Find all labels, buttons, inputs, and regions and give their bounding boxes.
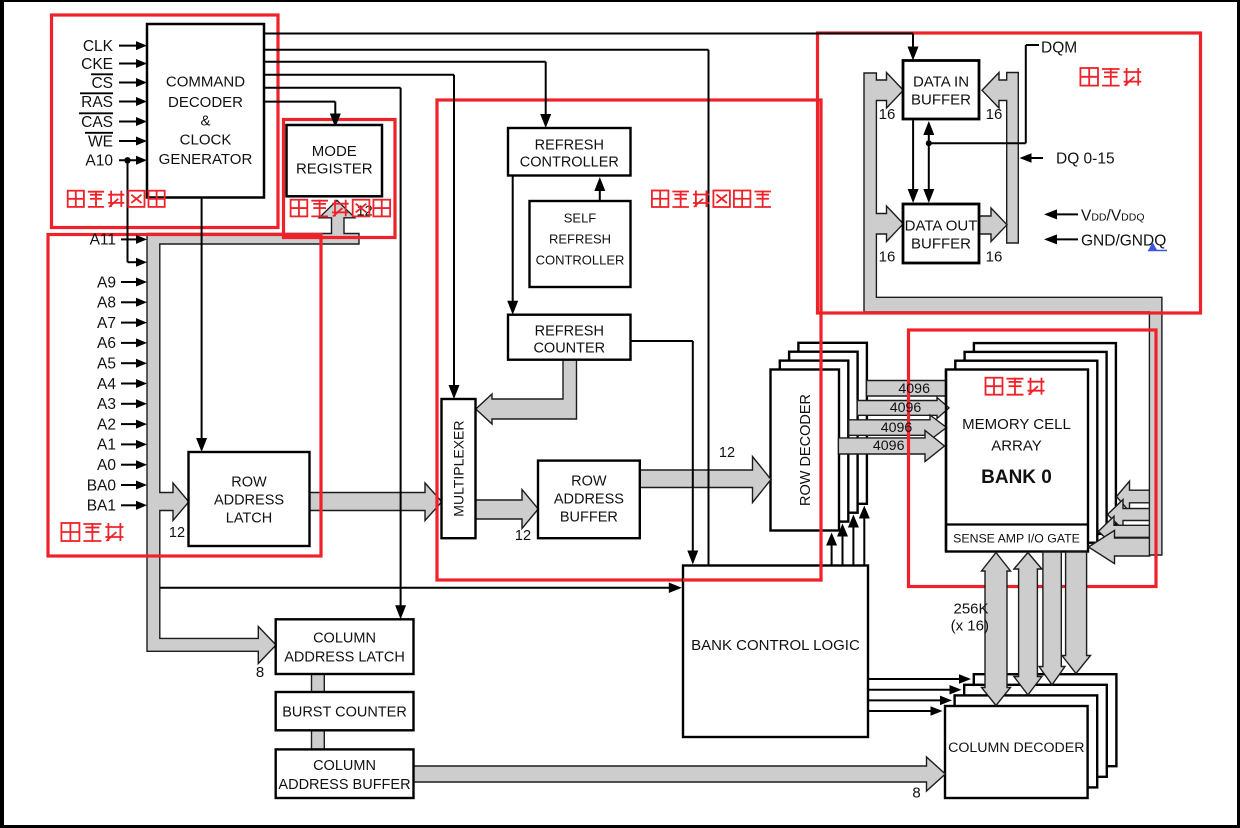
svg-text:8: 8 bbox=[256, 664, 264, 681]
svg-text:8: 8 bbox=[912, 785, 920, 802]
svg-text:REFRESH: REFRESH bbox=[549, 232, 611, 247]
svg-text:A2: A2 bbox=[97, 416, 116, 433]
svg-text:BURST COUNTER: BURST COUNTER bbox=[282, 705, 407, 721]
svg-text:4096: 4096 bbox=[890, 400, 922, 416]
svg-text:ADDRESS BUFFER: ADDRESS BUFFER bbox=[278, 777, 410, 793]
svg-text:SENSE AMP I/O GATE: SENSE AMP I/O GATE bbox=[953, 532, 1080, 546]
svg-text:CONTROLLER: CONTROLLER bbox=[536, 253, 625, 268]
svg-text:MEMORY CELL: MEMORY CELL bbox=[962, 416, 1071, 433]
svg-text:A7: A7 bbox=[97, 315, 116, 332]
svg-text:DATA OUT: DATA OUT bbox=[905, 218, 978, 235]
svg-text:(x 16): (x 16) bbox=[951, 618, 989, 635]
svg-text:A1: A1 bbox=[97, 437, 116, 454]
svg-text:CKE: CKE bbox=[81, 56, 113, 73]
svg-text:&: & bbox=[200, 112, 210, 129]
svg-text:MODE: MODE bbox=[312, 143, 357, 160]
svg-text:A10: A10 bbox=[85, 153, 113, 170]
svg-text:BUFFER: BUFFER bbox=[560, 510, 618, 526]
svg-text:LATCH: LATCH bbox=[226, 511, 272, 527]
svg-text:A4: A4 bbox=[97, 376, 116, 393]
svg-text:A3: A3 bbox=[97, 396, 116, 413]
svg-text:CLK: CLK bbox=[83, 38, 114, 55]
svg-text:COMMAND: COMMAND bbox=[166, 74, 245, 91]
svg-text:A5: A5 bbox=[97, 356, 116, 373]
svg-text:12: 12 bbox=[719, 445, 735, 461]
svg-text:4096: 4096 bbox=[881, 420, 913, 436]
svg-text:REGISTER: REGISTER bbox=[296, 161, 373, 178]
svg-text:BA0: BA0 bbox=[87, 477, 117, 494]
svg-text:A9: A9 bbox=[97, 274, 116, 291]
svg-text:12: 12 bbox=[515, 528, 531, 544]
svg-text:16: 16 bbox=[986, 106, 1003, 123]
svg-text:ROW: ROW bbox=[231, 475, 267, 491]
svg-text:GENERATOR: GENERATOR bbox=[159, 151, 253, 168]
svg-text:12: 12 bbox=[169, 525, 185, 541]
svg-text:REFRESH: REFRESH bbox=[535, 138, 604, 154]
svg-text:CONTROLLER: CONTROLLER bbox=[520, 155, 619, 171]
svg-text:SELF: SELF bbox=[564, 211, 597, 226]
svg-text:BANK CONTROL LOGIC: BANK CONTROL LOGIC bbox=[691, 637, 860, 654]
svg-text:RAS: RAS bbox=[81, 94, 113, 111]
svg-text:CAS: CAS bbox=[81, 114, 113, 131]
svg-text:WE: WE bbox=[88, 133, 113, 150]
svg-text:COLUMN DECODER: COLUMN DECODER bbox=[948, 740, 1084, 756]
svg-text:DQ 0-15: DQ 0-15 bbox=[1056, 151, 1115, 168]
svg-text:CS: CS bbox=[91, 75, 113, 92]
svg-text:BUFFER: BUFFER bbox=[911, 92, 971, 109]
svg-text:A6: A6 bbox=[97, 335, 116, 352]
svg-text:BA1: BA1 bbox=[87, 498, 116, 515]
svg-text:4096: 4096 bbox=[898, 381, 930, 397]
svg-text:ROW: ROW bbox=[571, 474, 607, 490]
svg-text:ADDRESS: ADDRESS bbox=[214, 493, 284, 509]
svg-text:16: 16 bbox=[879, 249, 896, 266]
svg-text:16: 16 bbox=[879, 106, 896, 123]
svg-text:COLUMN: COLUMN bbox=[313, 631, 376, 647]
svg-text:DQM: DQM bbox=[1041, 40, 1077, 57]
svg-text:COUNTER: COUNTER bbox=[533, 341, 605, 357]
svg-text:ADDRESS LATCH: ADDRESS LATCH bbox=[284, 650, 405, 666]
svg-text:MULTIPLEXER: MULTIPLEXER bbox=[451, 420, 467, 516]
svg-text:ADDRESS: ADDRESS bbox=[554, 492, 624, 508]
svg-text:DECODER: DECODER bbox=[168, 94, 243, 111]
svg-text:A0: A0 bbox=[97, 457, 116, 474]
svg-text:DATA IN: DATA IN bbox=[913, 74, 969, 91]
svg-text:16: 16 bbox=[986, 249, 1003, 266]
svg-text:BANK 0: BANK 0 bbox=[981, 467, 1052, 488]
svg-text:256K: 256K bbox=[954, 601, 989, 618]
svg-text:4096: 4096 bbox=[873, 438, 905, 454]
svg-text:A8: A8 bbox=[97, 295, 116, 312]
svg-text:A11: A11 bbox=[90, 232, 116, 249]
svg-text:CLOCK: CLOCK bbox=[180, 131, 232, 148]
svg-text:BUFFER: BUFFER bbox=[911, 236, 971, 253]
svg-text:COLUMN: COLUMN bbox=[313, 758, 376, 774]
svg-text:REFRESH: REFRESH bbox=[535, 324, 604, 340]
svg-text:ARRAY: ARRAY bbox=[991, 438, 1042, 455]
svg-text:ROW DECODER: ROW DECODER bbox=[798, 394, 814, 506]
